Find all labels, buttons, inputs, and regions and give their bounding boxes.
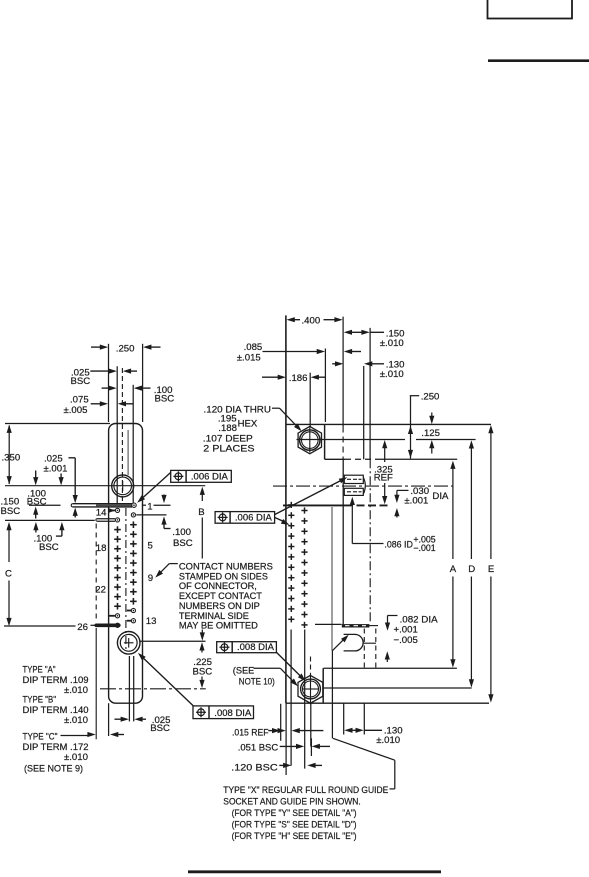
extension line b304 xyxy=(304,630,306,769)
dimension .086 ID leader xyxy=(350,497,384,544)
dimension arrow x36 up xyxy=(33,522,38,533)
hex recess H1 hole xyxy=(300,430,320,450)
svg-text:TYPE "A": TYPE "A" xyxy=(23,665,56,676)
hidden line bore left xyxy=(363,629,365,668)
dimension .186 xyxy=(262,373,326,384)
contact 25 stub xyxy=(109,615,115,617)
label 5 xyxy=(148,540,153,551)
note contact numbers text xyxy=(179,562,273,632)
extension line b311 xyxy=(310,738,312,756)
svg-text:TYPE "B": TYPE "B" xyxy=(23,695,57,706)
extension line row13 right xyxy=(315,623,342,625)
leader .120 DIA THRU xyxy=(272,408,302,431)
svg-text:.250: .250 xyxy=(421,392,440,403)
extension line body left bottom xyxy=(108,703,110,736)
label C xyxy=(5,568,12,579)
receptacle step bottom xyxy=(325,458,458,460)
dimension C line lower xyxy=(6,581,11,627)
svg-text:B: B xyxy=(198,507,204,518)
label 13 xyxy=(146,616,157,627)
svg-text:.120 BSC: .120 BSC xyxy=(231,762,278,773)
label .325 REF xyxy=(374,464,393,483)
centerline guide above hex xyxy=(310,657,312,670)
centerline dip term datum xyxy=(100,688,206,690)
svg-text:±.010: ±.010 xyxy=(376,735,400,746)
note type X text xyxy=(223,785,388,842)
contact 12 stub xyxy=(127,610,131,612)
centerline cavity xyxy=(369,459,371,624)
svg-text:±.010: ±.010 xyxy=(64,715,88,726)
centerline sockets horizontal xyxy=(273,485,453,487)
dimension .325 REF line xyxy=(382,440,387,504)
extension line row2 right xyxy=(136,514,166,516)
label TYPE C dip term xyxy=(23,742,89,753)
svg-text:(SEE: (SEE xyxy=(233,666,255,677)
feature frame F4 leader xyxy=(138,653,193,706)
hex recess H2 hole xyxy=(301,679,321,699)
label B xyxy=(198,507,204,518)
type X bracket xyxy=(333,738,395,789)
svg-text:2 PLACES: 2 PLACES xyxy=(203,444,254,455)
guide socket S1 outer xyxy=(112,475,134,497)
contact 2 post xyxy=(131,513,135,517)
dimension .075 arrows xyxy=(91,401,134,406)
extension line b364 xyxy=(363,703,365,734)
cavity line right of socket xyxy=(363,478,365,495)
dimension .100 BSC right bracket xyxy=(161,495,170,529)
label .025 BSC xyxy=(71,367,91,386)
svg-text:−.001: −.001 xyxy=(413,543,435,553)
hidden line bore right xyxy=(375,629,377,668)
title block rule xyxy=(488,59,589,62)
label TYPE A dip term xyxy=(23,675,89,686)
hex recess H1 outline xyxy=(298,426,321,453)
dimension .130 xyxy=(332,361,384,366)
svg-text:BSC: BSC xyxy=(71,376,91,387)
guide pin centerline xyxy=(363,642,377,644)
svg-text:22: 22 xyxy=(95,584,106,595)
extension line e370 xyxy=(369,328,371,459)
title block empty box xyxy=(488,0,573,19)
svg-text:.350: .350 xyxy=(2,453,21,464)
receptacle contacts col1 crosses xyxy=(288,502,294,623)
svg-text:BSC: BSC xyxy=(193,667,213,678)
svg-text:BSC: BSC xyxy=(1,506,21,517)
label .130 +-.010 xyxy=(380,360,405,381)
label .082 DIA tol xyxy=(394,614,439,646)
dimension .030 bracket xyxy=(394,490,408,517)
svg-text:1: 1 xyxy=(147,501,152,512)
label .195 xyxy=(218,413,237,424)
label 9 xyxy=(148,573,153,584)
dimension B line xyxy=(200,487,205,641)
feature frame F2 leader to contact xyxy=(275,518,290,525)
svg-text:C: C xyxy=(5,568,12,579)
svg-text:REF: REF xyxy=(374,473,393,484)
contacts 16-24 crosses xyxy=(114,526,121,609)
svg-text:BSC: BSC xyxy=(150,723,170,734)
svg-text:+.001: +.001 xyxy=(394,625,418,636)
svg-text:26: 26 xyxy=(77,622,88,633)
svg-text:(SEE NOTE 9): (SEE NOTE 9) xyxy=(24,763,83,774)
svg-text:9: 9 xyxy=(148,573,153,584)
contact 13 stub xyxy=(127,620,131,622)
contact 15 post xyxy=(115,518,119,522)
label .025 BSC bottom xyxy=(150,715,170,734)
label .120 BSC xyxy=(231,762,278,773)
svg-text:.086 ID: .086 ID xyxy=(384,540,413,551)
svg-text:±.001: ±.001 xyxy=(404,496,428,507)
dimension .100 BSC top arrows xyxy=(102,386,151,391)
feature frame F1 .006 DIA xyxy=(171,470,232,482)
label TYPE A tol xyxy=(64,685,88,696)
svg-text:.100: .100 xyxy=(172,527,191,538)
feature frame F2 .006 DIA xyxy=(215,512,275,524)
hex recess H2 cross xyxy=(303,673,319,705)
svg-text:D: D xyxy=(468,564,475,575)
line pin shoulder xyxy=(323,667,457,669)
terminal pin row15 (type A) xyxy=(96,519,115,522)
extension line right column top xyxy=(132,385,134,503)
svg-text:13: 13 xyxy=(146,616,157,627)
svg-text:±.010: ±.010 xyxy=(64,685,88,696)
svg-text:BSC: BSC xyxy=(155,394,175,405)
feature frame F4 .008 DIA xyxy=(193,706,254,719)
svg-text:A: A xyxy=(450,564,457,575)
dimension .015 REF arrows xyxy=(268,728,323,733)
note 10 leader xyxy=(254,668,298,686)
centerline hex horizontal xyxy=(297,439,476,441)
guide hole S2 outer xyxy=(117,632,140,655)
label .030 +-.001 DIA xyxy=(404,486,449,507)
dimension arrow pair x36 xyxy=(33,471,38,519)
label .086 ID tol xyxy=(384,535,435,553)
label TYPE A xyxy=(23,665,56,676)
bottom border rule xyxy=(188,870,441,873)
label .100 BSC top xyxy=(154,385,174,404)
receptacle step vertical xyxy=(324,424,326,459)
contact 26 post xyxy=(115,623,119,627)
label .100 BSC right xyxy=(172,527,192,549)
dimension .250 arrows xyxy=(91,345,161,350)
svg-text:5: 5 xyxy=(148,540,153,551)
line hex center bottom xyxy=(323,687,472,689)
label TYPE B xyxy=(23,695,57,706)
label 26 leader xyxy=(77,622,95,633)
label TYPE C tol xyxy=(64,752,88,763)
svg-text:BSC: BSC xyxy=(173,538,193,549)
guide hole S2 cross xyxy=(124,638,134,648)
extension line body top left xyxy=(5,423,110,425)
note contact numbers leader xyxy=(155,564,178,578)
label 22 xyxy=(95,584,106,595)
label .350 xyxy=(2,453,21,464)
svg-text:TYPE "X" REGULAR FULL ROUND GU: TYPE "X" REGULAR FULL ROUND GUIDE xyxy=(223,785,388,796)
svg-text:MAY BE OMITTED: MAY BE OMITTED xyxy=(179,621,258,632)
contact 25 post xyxy=(115,614,119,618)
svg-text:.075: .075 xyxy=(70,395,89,406)
terminal pin row26 (type B) xyxy=(96,623,119,627)
svg-text:.186: .186 xyxy=(289,373,308,384)
dimension .120 BSC arrows xyxy=(279,763,322,768)
centerline socket vertical dashed xyxy=(121,368,123,502)
svg-text:.006 DIA: .006 DIA xyxy=(235,513,273,523)
label 18 xyxy=(96,543,107,554)
socket detail upper box xyxy=(344,475,363,483)
dimension C line upper xyxy=(6,522,11,562)
svg-text:SOCKET AND GUIDE PIN SHOWN.: SOCKET AND GUIDE PIN SHOWN. xyxy=(223,797,360,808)
extension line b291 xyxy=(290,630,292,766)
dimension E line xyxy=(488,425,494,703)
extension line hex centerline below xyxy=(310,703,312,746)
feature frame F2 leader to socket detail xyxy=(275,477,348,514)
label .130 +-.010 bottom xyxy=(376,726,402,747)
extension line e325 xyxy=(324,349,326,423)
svg-text:±.010: ±.010 xyxy=(64,752,88,763)
label 2 PLACES xyxy=(203,444,254,455)
label 1 with ticks xyxy=(142,501,171,512)
dimension .100 BSC lower bracket xyxy=(56,522,65,536)
extension line column bottom xyxy=(133,656,135,721)
svg-text:.125: .125 xyxy=(421,428,440,439)
label .100 BSC lower xyxy=(34,533,59,553)
label TYPE C leader xyxy=(23,732,89,743)
contact row line solid xyxy=(283,504,345,506)
receptacle outline right of hex xyxy=(322,668,324,703)
label .120 DIA THRU xyxy=(204,405,272,416)
terminal pin row1 hollow part xyxy=(71,504,132,507)
svg-text:18: 18 xyxy=(96,543,107,554)
svg-text:.008 DIA: .008 DIA xyxy=(214,708,252,718)
contact 12 post xyxy=(131,608,135,612)
dimension type C arrows xyxy=(87,732,124,737)
centerline hole bottom xyxy=(128,656,130,721)
svg-text:HEX: HEX xyxy=(238,419,258,430)
guide socket S1 inner xyxy=(114,477,132,495)
svg-text:±.005: ±.005 xyxy=(64,405,88,416)
svg-text:.051 BSC: .051 BSC xyxy=(238,742,279,753)
contact tail bar xyxy=(342,624,378,627)
svg-text:.250: .250 xyxy=(116,344,135,355)
svg-text:(FOR TYPE "H" SEE DETAIL "E"): (FOR TYPE "H" SEE DETAIL "E") xyxy=(232,831,357,842)
socket detail lower box xyxy=(344,488,363,495)
extension line b343 xyxy=(343,703,345,734)
feature frame F3 leader xyxy=(277,652,306,681)
label TYPE B tol xyxy=(64,715,88,726)
guide pin full round tip xyxy=(344,634,364,651)
hex recess H1 cross xyxy=(309,428,311,453)
guide hole S2 inner xyxy=(120,634,137,651)
label .188 xyxy=(218,423,237,434)
label .250 xyxy=(116,344,135,355)
label TYPE B dip term xyxy=(23,705,89,716)
label .015 REF xyxy=(232,727,269,738)
extension line row14 left xyxy=(5,519,95,521)
svg-text:.400: .400 xyxy=(302,316,321,327)
extension line row26 left xyxy=(4,625,76,627)
contact 14 post xyxy=(115,508,119,512)
extension line left column top xyxy=(116,366,118,503)
dimension .051 BSC arrows xyxy=(280,744,330,749)
receptacle top edge xyxy=(286,423,491,425)
hidden line pin tips vertical xyxy=(95,524,97,740)
leader type X to guide pin xyxy=(332,635,348,739)
svg-text:BSC: BSC xyxy=(39,542,59,553)
contact 1 post xyxy=(132,503,136,507)
label 14 xyxy=(96,508,107,519)
extension line hole center right xyxy=(140,640,205,642)
label .150 BSC xyxy=(1,497,21,517)
dimension .025 +-.001 leader xyxy=(69,458,78,518)
label .107 DEEP xyxy=(203,434,253,445)
extension line b280 xyxy=(280,704,282,741)
dimension .400 xyxy=(287,316,343,327)
contact 14 stub xyxy=(109,509,115,511)
svg-text:(FOR TYPE "S" SEE DETAIL "D"): (FOR TYPE "S" SEE DETAIL "D") xyxy=(232,820,357,831)
svg-text:NOTE 10): NOTE 10) xyxy=(239,676,275,687)
connector body J1 outline xyxy=(109,424,143,704)
receptacle bottom edge xyxy=(286,702,489,704)
svg-text:E: E xyxy=(488,564,494,575)
contacts 3-11 crosses xyxy=(130,521,137,604)
svg-text:.008 DIA: .008 DIA xyxy=(237,642,275,652)
svg-text:.188: .188 xyxy=(218,423,237,434)
label .085 +-.015 xyxy=(237,342,262,363)
svg-text:±.010: ±.010 xyxy=(380,338,404,349)
dimension .025 BSC leader xyxy=(90,369,137,374)
hex recess H2 outline xyxy=(298,675,323,703)
dimension A line xyxy=(450,461,457,668)
label .051 BSC xyxy=(238,742,279,753)
receptacle left face xyxy=(285,315,287,703)
dimension arrow x61 down xyxy=(59,474,64,486)
svg-text:.120 DIA THRU: .120 DIA THRU xyxy=(204,405,272,416)
extension line b286 xyxy=(285,703,287,775)
dimension .082 bracket xyxy=(385,616,398,663)
feature frame F1 leader xyxy=(137,472,171,503)
feature frame F3 .008 DIA xyxy=(217,642,277,653)
label .150 +-.010 xyxy=(380,329,405,350)
svg-text:±.010: ±.010 xyxy=(380,369,404,380)
contact 13 post xyxy=(131,619,135,623)
extension line hex center vertical xyxy=(309,373,311,427)
svg-text:BSC: BSC xyxy=(27,497,47,508)
svg-text:TYPE "C": TYPE "C" xyxy=(23,732,58,743)
extension line row1 left xyxy=(29,504,61,506)
receptacle contacts col2 crosses xyxy=(301,507,307,628)
svg-text:±.015: ±.015 xyxy=(237,352,261,363)
svg-text:14: 14 xyxy=(96,508,107,519)
dimension .085 leader xyxy=(263,349,362,354)
label .025 +-.001 xyxy=(44,453,68,474)
dimension .250 bracket xyxy=(408,392,439,459)
dimension .350 line xyxy=(7,425,12,485)
extension line body right top xyxy=(142,344,144,422)
extension line e343 xyxy=(342,317,344,460)
dimension D line xyxy=(468,440,475,687)
dimension .150 xyxy=(344,330,384,335)
guide socket S1 center cross xyxy=(122,481,124,491)
svg-text:DIA: DIA xyxy=(432,491,449,502)
label SEE NOTE 9 xyxy=(24,763,83,774)
contact row line dashed xyxy=(345,504,389,506)
dimension .225 BSC line xyxy=(193,642,213,688)
svg-text:±.001: ±.001 xyxy=(44,463,68,474)
dimension .025 BSC bottom arrows xyxy=(115,717,147,722)
svg-text:.006 DIA: .006 DIA xyxy=(191,472,229,482)
extension line socket center left xyxy=(5,485,205,487)
label HEX xyxy=(238,419,258,430)
label .100 BSC upper-left xyxy=(27,488,47,507)
extension line socket right faint xyxy=(127,430,129,475)
extension line e363 xyxy=(363,366,365,459)
dimension .125 xyxy=(421,413,440,454)
leader 14 arrow xyxy=(109,508,116,513)
svg-text:.015 REF: .015 REF xyxy=(232,727,269,738)
svg-text:(FOR TYPE "Y" SEE DETAIL "A"): (FOR TYPE "Y" SEE DETAIL "A") xyxy=(232,808,357,819)
svg-text:−.005: −.005 xyxy=(394,635,418,646)
cavity wall solid xyxy=(342,460,344,624)
centerline body vertical xyxy=(125,508,127,652)
dimension .130 bottom arrows xyxy=(344,728,382,733)
terminal pin row1 solid part xyxy=(96,504,132,506)
label SEE NOTE 10 xyxy=(233,666,275,688)
label .075 +-.005 xyxy=(64,395,89,417)
extension line body left top xyxy=(108,344,110,422)
cavity wall faint xyxy=(331,507,333,651)
